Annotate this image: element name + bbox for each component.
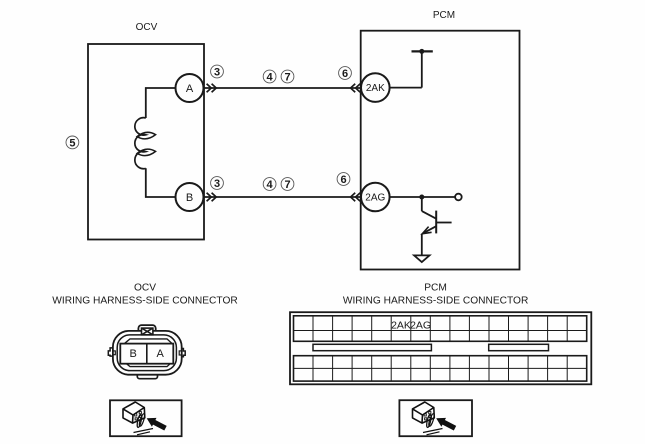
svg-text:PCM: PCM (424, 283, 447, 294)
svg-text:3: 3 (214, 178, 220, 190)
svg-text:A: A (157, 348, 165, 360)
svg-text:4: 4 (267, 72, 274, 84)
svg-text:4: 4 (267, 179, 274, 191)
svg-text:OCV: OCV (134, 283, 156, 294)
svg-text:B: B (186, 192, 193, 204)
svg-text:7: 7 (284, 72, 290, 84)
svg-text:PCM: PCM (433, 10, 455, 21)
svg-text:B: B (130, 348, 137, 360)
svg-text:5: 5 (69, 137, 75, 149)
svg-text:2AG: 2AG (365, 193, 385, 204)
svg-text:6: 6 (340, 174, 346, 186)
svg-text:WIRING HARNESS-SIDE CONNECTOR: WIRING HARNESS-SIDE CONNECTOR (343, 296, 528, 307)
svg-text:OCV: OCV (136, 22, 158, 33)
svg-text:WIRING HARNESS-SIDE CONNECTOR: WIRING HARNESS-SIDE CONNECTOR (52, 296, 237, 307)
svg-text:A: A (186, 83, 194, 95)
svg-text:7: 7 (284, 179, 290, 191)
svg-text:2AK: 2AK (366, 83, 385, 94)
svg-text:2AK: 2AK (391, 320, 411, 332)
svg-text:3: 3 (214, 67, 220, 79)
svg-text:2AG: 2AG (410, 320, 431, 332)
svg-text:6: 6 (342, 68, 348, 80)
